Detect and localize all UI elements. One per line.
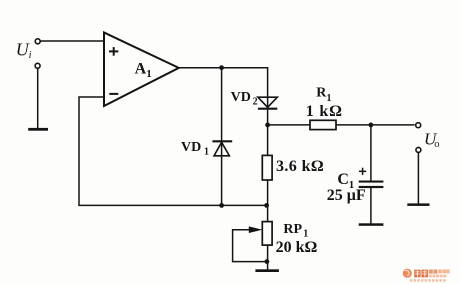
svg-text:A: A: [135, 61, 147, 78]
svg-text:1: 1: [146, 68, 152, 80]
svg-text:20 kΩ: 20 kΩ: [276, 239, 318, 256]
svg-text:1: 1: [303, 228, 308, 239]
svg-text:RP: RP: [283, 222, 302, 237]
svg-text:VD: VD: [231, 90, 251, 105]
svg-text:VD: VD: [181, 140, 201, 155]
svg-text:1 kΩ: 1 kΩ: [306, 103, 343, 120]
svg-text:C: C: [337, 171, 349, 188]
svg-text:3.6 kΩ: 3.6 kΩ: [276, 158, 324, 175]
svg-text:1: 1: [204, 146, 209, 157]
svg-text:2: 2: [253, 97, 258, 108]
svg-text:25 μF: 25 μF: [327, 187, 366, 204]
svg-text:o: o: [434, 139, 439, 150]
svg-text:i: i: [29, 50, 32, 61]
